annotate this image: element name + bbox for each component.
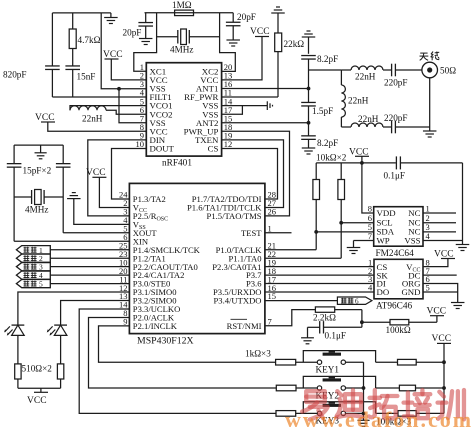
switch KEY1 [316,351,346,375]
svg-text:22nH: 22nH [358,114,379,124]
wire DC stub [423,274,457,276]
pin numbers U2 [368,204,431,242]
op-amp U3 AT96C46 body [374,259,423,311]
wire match node bottom [341,126,351,128]
node label shuchu1 [16,246,129,255]
svg-text:15: 15 [268,291,277,301]
capacitor 8.2pF upper [301,54,338,89]
wire VSS pin14 [222,105,268,107]
ground antenna [423,127,437,137]
capacitor 20pF right [226,12,256,40]
node label shuchu4 [16,271,129,280]
svg-text:1: 1 [268,224,272,234]
node ground bus KEY3 [362,412,366,416]
svg-text:0.1μF: 0.1μF [325,331,347,341]
resistor 510&#937; right [57,364,63,388]
wire CS to MSP pin28 [222,149,278,200]
svg-text:20pF: 20pF [123,28,142,38]
svg-text:1MΩ: 1MΩ [172,0,192,10]
resistor 1k&#937; KEY3 [276,411,317,417]
ground RST cap [301,327,314,344]
resistor 100k&#937; RST [362,320,437,336]
node key rail2 [442,386,446,390]
wire KEY2 to ground bus [346,387,364,389]
svg-text:820pF: 820pF [3,70,27,80]
svg-text:10: 10 [136,139,145,149]
svg-text:15pF×2: 15pF×2 [23,166,52,176]
node ANT2 junction [307,121,311,125]
pin numbers U4 [119,190,276,327]
power VCC nRF401 pin2 [103,50,146,80]
ground crystal2 [35,145,47,159]
wire XC1 net [134,13,178,72]
svg-text:50Ω: 50Ω [440,66,456,76]
resistor 1k&#937; KEY2 [276,385,317,391]
svg-text:7: 7 [368,231,372,241]
resistor 510&#937; left [15,364,21,388]
svg-text:FM24C64: FM24C64 [376,249,415,259]
svg-text:KEY1: KEY1 [316,365,340,375]
node VSS junction [117,87,121,91]
resistor 10k&#937; SCL [265,163,345,258]
ground FM24C64 VSS [456,241,470,251]
switch KEY2 [316,376,346,400]
resistor 22k&#937; [271,7,304,97]
wire match node top [309,69,342,71]
svg-text:26: 26 [268,207,277,217]
wire NC1 [423,212,456,214]
LED D2 [47,301,130,364]
wire KEY1 to ground bus [346,361,364,363]
svg-text:4.7kΩ: 4.7kΩ [78,35,101,45]
capacitor 15nF [65,66,95,97]
power VCC RST [427,307,447,323]
watermark url [285,407,473,428]
node RST junction [360,320,364,324]
svg-text:VCC: VCC [27,396,47,406]
wire VSS pin17 [222,106,243,115]
svg-text:5: 5 [39,280,43,289]
wire NC3 [423,231,456,233]
ground 20pF right [226,40,240,46]
antenna 50ohm [422,62,456,78]
capacitor 220pF bottom [384,113,430,133]
svg-text:22nH: 22nH [355,72,376,82]
svg-text:4MHz: 4MHz [25,205,48,215]
svg-text:12: 12 [224,139,233,149]
crystal Y1 4MHz [170,29,193,55]
svg-text:100kΩ: 100kΩ [386,325,411,335]
wire XOUT [63,232,129,234]
svg-text:P1.5/TAO/TMS: P1.5/TAO/TMS [207,211,262,221]
capacitor 220pF top [384,64,422,88]
node VCC junction [360,161,364,165]
svg-text:10kΩ×2: 10kΩ×2 [316,153,347,163]
svg-text:VCC: VCC [250,27,270,37]
wire TEST stub [265,232,292,234]
label 10kohm x2 [316,153,347,163]
svg-text:510Ω×2: 510Ω×2 [22,364,53,374]
wire bracket KEY1 [303,351,375,363]
ground VSS side symbol [267,101,272,110]
svg-text:TEST: TEST [241,228,262,238]
watermark big text [302,390,464,419]
ground MSP pin4 [67,193,129,225]
svg-text:4: 4 [368,283,373,293]
node SCL junction [339,221,343,225]
svg-text:8.2pF: 8.2pF [317,54,338,64]
wire XC2 net [189,13,235,72]
resistor 2.2k&#937; [313,307,336,323]
inductor 22nH antenna bottom [351,114,391,127]
node ANT1 junction [307,87,311,91]
svg-text:VCC: VCC [427,307,447,317]
wire GND AT96C46 [423,291,458,293]
label 1kohm x3 [245,349,271,359]
wire SCL [341,222,374,224]
inductor 22nH VCO [70,106,106,124]
wire to RC node [335,310,362,328]
wire TXEN to MSP pin27 [222,140,284,208]
ground WP [347,241,361,254]
ground below 8.2pF lower [302,148,316,154]
svg-text:RST/NMI: RST/NMI [227,321,262,331]
svg-text:WP: WP [377,236,390,246]
wire VCO1 pin5 [70,106,146,111]
capacitor 8.2pF lower [301,123,338,148]
svg-text:MSP430F12X: MSP430F12X [137,336,194,347]
svg-text:DOUT: DOUT [150,144,175,154]
resistor 10k&#937; SDA [265,163,320,250]
wire CS from MSP [265,266,374,268]
resistor 1M&#937; [172,0,194,15]
resistor 1k&#937; KEY1 [276,359,318,365]
op-amp U2 FM24C64 body [374,207,423,259]
svg-text:22nH: 22nH [82,114,103,124]
wire antenna stem [429,78,431,127]
svg-text:P3.4/UTXDO: P3.4/UTXDO [214,296,262,306]
LED D1 [4,292,129,364]
label 15pF x2 [23,166,52,176]
crystal Y2 4MHz [14,190,63,215]
wire crystal top rail [145,12,234,14]
power VCC MSP pin2 [86,168,129,208]
svg-text:7: 7 [268,317,272,327]
capacitor 820pF [3,13,60,97]
wire bracket KEY3 [303,402,375,414]
svg-text:22kΩ: 22kΩ [284,39,305,49]
svg-text:VSS: VSS [404,236,420,246]
wire RST/NMI [265,310,316,326]
wire crystal2 top rail [14,144,63,146]
node SDA junction [314,230,318,234]
wire P2.1 to KEY1 [99,326,276,362]
inductor 22nH shunt [341,70,368,127]
node label shuchu5 [16,280,129,289]
power VCC AT96C46 [423,250,455,267]
wire DI from MSP [265,283,374,285]
wire P2.0 to KEY2 [89,317,277,388]
svg-text:20pF: 20pF [237,12,256,22]
ground 20pF left [139,39,153,45]
switch KEY3 [316,402,346,426]
node key rail1 [442,360,446,364]
op-amp U1 nRF401 body [146,63,221,169]
wire DOUT to MSP pin24 [112,149,147,200]
node ground bus KEY2 [362,386,366,390]
wire cap to VSS rail [400,163,462,241]
resistor 100k&#937; KEY3 [376,411,444,417]
svg-text:9: 9 [123,317,127,327]
svg-text:2.2kΩ: 2.2kΩ [313,313,336,323]
svg-text:22nH: 22nH [348,96,369,106]
capacitor 1.5pF [301,89,333,123]
resistor 100k&#937; KEY2 [376,385,444,391]
wire FILT1 net [52,96,146,98]
svg-text:1.5pF: 1.5pF [312,106,333,116]
inductor 22nH antenna top [341,66,391,82]
svg-text:220pF: 220pF [384,113,408,123]
op-amp U4 MSP430F12X body [129,183,265,346]
power VCC nRF401 pin8 [35,113,146,131]
ground key bus [357,420,369,426]
resistor 4.7k&#937; [69,13,100,66]
resistor 100k&#937; KEY1 [376,359,444,365]
capacitor 0.1uF decoupling [384,156,406,180]
wire VSS FM24C64 [423,240,463,242]
wire VSS net to pin3 [101,13,146,89]
svg-text:P2.1/INCLK: P2.1/INCLK [133,321,178,331]
wire WP [354,240,374,242]
svg-text:DO: DO [377,287,390,297]
svg-text:VCC: VCC [86,168,106,178]
power VCC keys [432,334,452,413]
wire ANT1 pin16 [222,88,309,90]
wire VCC rail to cap [316,162,396,164]
power VCC nRF401 pin13 [222,27,270,80]
wire key ground bus [363,362,365,420]
node label shuchu3 [16,263,129,272]
wire bracket KEY2 [303,376,375,388]
svg-text:GND: GND [401,287,420,297]
capacitor 15pF right [56,145,71,233]
capacitor 20pF left [123,13,154,39]
label 100kohm x3 [376,417,411,427]
ground AT96C46 [451,303,465,309]
svg-text:CS: CS [208,144,219,154]
wire VDD FM24C64 [362,163,374,213]
svg-text:5: 5 [426,283,430,293]
pin numbers U3 [368,257,430,292]
svg-text:4MHz: 4MHz [170,45,193,55]
wire top-left ground rail [52,12,111,14]
wire P3.3 to KEY3 [79,309,276,413]
capacitor 15pF left [7,145,22,241]
node label shuchu6 [265,297,372,306]
svg-text:15nF: 15nF [77,72,96,82]
wire RF_PWR pin11 [222,96,278,98]
capacitor 0.1uF RST [308,321,362,340]
wire SK from MSP [265,274,374,276]
svg-text:8.2pF: 8.2pF [317,138,338,148]
pin numbers U1 [136,62,234,149]
wire SDA [316,231,374,233]
label 510ohm x2 [22,364,53,374]
power VCC I2C [349,148,369,163]
svg-text:AT96C46: AT96C46 [376,302,413,312]
wire XIN [14,240,129,242]
wire NC2 [423,222,456,224]
svg-text:0.1μF: 0.1μF [384,171,406,181]
wire ORG [423,284,458,303]
wire VSS to pin7 [119,89,146,123]
wire DIN to MSP pin3 [88,140,147,216]
label antenna tianxian [420,52,440,61]
svg-text:www.edafon.com: www.edafon.com [285,407,473,428]
ground above 8.2pF [302,31,316,54]
wire ANT2 pin15 [222,122,309,124]
svg-text:6: 6 [355,298,359,306]
wire DO from MSP [265,291,374,293]
svg-text:VCC: VCC [432,334,452,344]
power VCC LEDs [18,388,61,406]
wire KEY3 to ground bus [346,412,364,414]
node label shuchu2 [16,254,129,263]
svg-text:220pF: 220pF [384,78,408,88]
wire PWR_UP to MSP pin26 [222,131,290,216]
svg-text:1kΩ×3: 1kΩ×3 [245,349,271,359]
wire VCO2 pin6 [106,110,146,114]
ground top-left rail [104,13,118,24]
svg-text:nRF401: nRF401 [162,159,192,169]
